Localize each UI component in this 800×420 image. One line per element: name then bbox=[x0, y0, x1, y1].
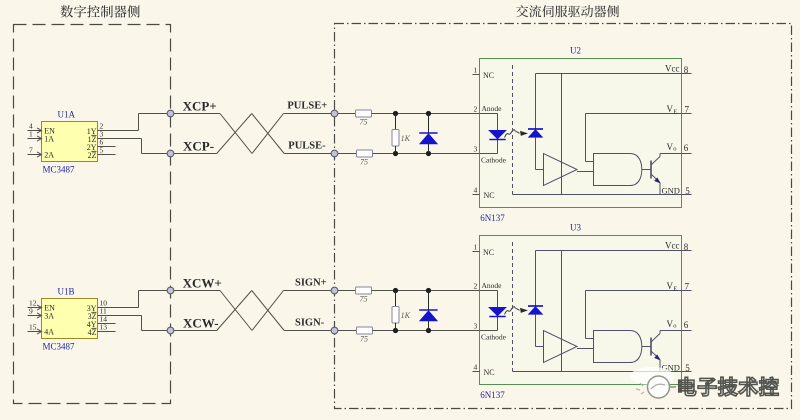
light coupling arrows bbox=[505, 307, 529, 315]
wire twisted pair to PULSE+ node bbox=[284, 113, 335, 115]
svg-text:Anode: Anode bbox=[482, 104, 503, 113]
title: digital controller side (数字控制器侧) bbox=[60, 5, 139, 17]
svg-text:3A: 3A bbox=[44, 312, 54, 321]
junction dot top of clamp diode bbox=[426, 288, 431, 293]
wire AND output to transistor base bbox=[642, 169, 651, 171]
U3 pin 7 VE enable wire bbox=[586, 281, 692, 339]
U2 pin 5 GND rail bbox=[513, 186, 692, 197]
wire resistor to opto anode pin 2 bbox=[372, 113, 480, 115]
clamp diode (reverse-parallel) bbox=[419, 291, 437, 331]
svg-text:SIGN+: SIGN+ bbox=[295, 277, 327, 288]
svg-text:75: 75 bbox=[360, 335, 368, 344]
node SIGN- port bbox=[295, 317, 338, 334]
node XCP+ port bbox=[167, 98, 217, 117]
svg-text:2Z: 2Z bbox=[88, 151, 97, 160]
clamp diode (reverse-parallel) bbox=[419, 114, 437, 154]
svg-text:MC3487: MC3487 bbox=[43, 341, 76, 351]
wire XCP+ bus jog to node bbox=[139, 113, 171, 115]
svg-text:Vcc: Vcc bbox=[665, 240, 680, 250]
U1B input pin 15 (4A) bbox=[28, 322, 55, 336]
U2 pin 7 VE enable wire bbox=[586, 104, 692, 162]
svg-text:3: 3 bbox=[474, 322, 478, 331]
U1A input pin 7 (2A) bbox=[28, 145, 55, 159]
junction dot bottom of 1K bbox=[393, 328, 398, 333]
resistor 75 ohm (bottom) bbox=[357, 327, 373, 344]
wire AND output to transistor base bbox=[642, 346, 651, 348]
svg-text:Vcc: Vcc bbox=[665, 63, 680, 73]
optocoupler U3 6N137 body bbox=[480, 223, 682, 401]
svg-text:Cathode: Cathode bbox=[481, 156, 507, 165]
optocoupler U2 6N137 body bbox=[480, 46, 682, 224]
wire twisted pair to SIGN- node bbox=[284, 330, 334, 332]
svg-text:Anode: Anode bbox=[482, 281, 503, 290]
U2 emitter LED bbox=[489, 131, 505, 140]
junction dot top of 1K bbox=[393, 111, 398, 116]
junction dot bottom of 1K bbox=[393, 151, 398, 156]
junction dot bottom of clamp diode bbox=[426, 328, 431, 333]
wire twisted pair to PULSE- node bbox=[284, 153, 334, 155]
svg-text:4: 4 bbox=[474, 186, 478, 195]
resistor 75 ohm (top) bbox=[356, 287, 372, 304]
wire SIGN+ node to series resistor bbox=[338, 290, 356, 292]
svg-text:GND: GND bbox=[662, 186, 680, 196]
svg-text:75: 75 bbox=[360, 118, 368, 127]
U2 pin 2 Anode bbox=[474, 104, 503, 114]
junction dot bottom of clamp diode bbox=[426, 151, 431, 156]
U1B input pin 12 (EN) bbox=[28, 298, 56, 312]
U3 pin 6 Vo bbox=[660, 319, 692, 330]
svg-text:5: 5 bbox=[685, 363, 690, 373]
U1A output pin 6 (2Y) bbox=[87, 137, 116, 152]
U2 pin 1 NC bbox=[473, 66, 495, 80]
svg-text:1: 1 bbox=[474, 243, 478, 252]
wire buffer output to AND gate bbox=[577, 348, 593, 350]
svg-text:XCW-: XCW- bbox=[183, 315, 219, 330]
light coupling arrows bbox=[505, 130, 529, 138]
wire buffer output to AND gate bbox=[577, 171, 593, 173]
node XCW- port bbox=[167, 315, 219, 334]
wire XCP- to twisted pair bbox=[174, 153, 217, 155]
U2 pin 6 Vo bbox=[660, 142, 692, 153]
wire XCW+ bus jog to node bbox=[139, 290, 171, 292]
U1B output pin 11 (3Z) bbox=[88, 306, 142, 330]
U3 pin 4 NC bbox=[473, 363, 495, 377]
wire resistor to opto anode pin 2 bbox=[372, 290, 480, 292]
resistor 1K shunt bbox=[392, 114, 411, 154]
dash-dot region box: AC servo driver side bbox=[335, 24, 792, 409]
U2 AND gate bbox=[594, 154, 642, 186]
svg-text:2A: 2A bbox=[44, 151, 54, 160]
svg-text:U3: U3 bbox=[570, 223, 581, 233]
svg-text:E: E bbox=[673, 108, 677, 115]
U2 isolation dashed line bbox=[512, 65, 514, 195]
U1B output pin 10 (3Y) bbox=[87, 291, 139, 313]
svg-text:XCP+: XCP+ bbox=[183, 98, 217, 113]
svg-text:XCP-: XCP- bbox=[183, 138, 214, 153]
wire XCP+ to twisted pair bbox=[174, 113, 220, 115]
svg-text:NC: NC bbox=[484, 191, 495, 200]
U1A output pin 5 (2Z) bbox=[88, 145, 116, 160]
node PULSE+ port bbox=[287, 100, 338, 117]
watermark text 电子技术控 bbox=[679, 377, 779, 396]
svg-text:4Z: 4Z bbox=[88, 328, 97, 337]
U3 output transistor bbox=[651, 331, 661, 372]
svg-text:U2: U2 bbox=[570, 46, 581, 56]
svg-text:1: 1 bbox=[474, 66, 478, 75]
node PULSE- port bbox=[288, 140, 338, 157]
svg-text:9: 9 bbox=[29, 306, 33, 315]
svg-text:13: 13 bbox=[100, 322, 108, 331]
svg-text:5: 5 bbox=[100, 145, 104, 154]
wire PULSE+ node to series resistor bbox=[338, 113, 356, 115]
U3 input LED loop wire bbox=[480, 291, 498, 331]
svg-text:4A: 4A bbox=[44, 328, 54, 337]
svg-text:2: 2 bbox=[474, 282, 478, 291]
driver IC U1B MC3487 body bbox=[42, 287, 98, 352]
wire XCW- to twisted pair bbox=[174, 330, 217, 332]
junction dot top of 1K bbox=[393, 288, 398, 293]
svg-text:NC: NC bbox=[483, 71, 494, 80]
svg-text:o: o bbox=[673, 146, 676, 153]
U2 amplifier bias line bbox=[561, 74, 563, 195]
svg-text:1A: 1A bbox=[44, 135, 54, 144]
svg-text:7: 7 bbox=[685, 105, 690, 115]
svg-text:8: 8 bbox=[684, 65, 689, 75]
wire XCP- bus jog to node bbox=[142, 153, 171, 155]
U3 pin 3 Cathode bbox=[474, 322, 507, 342]
svg-text:o: o bbox=[673, 323, 676, 330]
svg-text:U1A: U1A bbox=[58, 110, 76, 120]
U1A input pin 1 (1A) bbox=[28, 129, 55, 143]
dashed region box: digital controller side bbox=[14, 25, 171, 404]
svg-text:75: 75 bbox=[360, 295, 368, 304]
svg-text:NC: NC bbox=[483, 248, 494, 257]
U3 pin 2 Anode bbox=[474, 281, 503, 291]
U2 pin 3 Cathode bbox=[474, 145, 507, 165]
svg-text:XCW+: XCW+ bbox=[183, 275, 222, 290]
svg-text:E: E bbox=[673, 285, 677, 292]
twisted-pair crossover symbol bbox=[217, 114, 285, 154]
wire resistor to opto cathode pin 3 bbox=[373, 330, 480, 332]
svg-text:1K: 1K bbox=[401, 134, 411, 143]
U1B output pin 13 (4Z) bbox=[88, 322, 116, 337]
wire PULSE- node to series resistor bbox=[338, 153, 357, 155]
U2 output transistor bbox=[651, 154, 661, 195]
svg-text:75: 75 bbox=[360, 158, 368, 167]
node XCP- port bbox=[167, 138, 214, 157]
wire resistor to opto cathode pin 3 bbox=[373, 153, 480, 155]
node SIGN+ port bbox=[295, 277, 338, 294]
U2 pin 8 Vcc rail bbox=[536, 63, 692, 75]
U3 pin 8 Vcc rail bbox=[536, 240, 692, 252]
svg-text:6N137: 6N137 bbox=[480, 390, 505, 400]
resistor 75 ohm (bottom) bbox=[357, 150, 373, 167]
U3 AND gate bbox=[594, 331, 642, 363]
U1B output pin 14 (4Y) bbox=[87, 314, 116, 329]
U1A output pin 2 (1Y) bbox=[87, 114, 139, 136]
svg-text:NC: NC bbox=[484, 368, 495, 377]
svg-text:MC3487: MC3487 bbox=[43, 164, 76, 174]
resistor 75 ohm (top) bbox=[356, 110, 372, 127]
svg-text:U1B: U1B bbox=[58, 287, 75, 297]
svg-text:PULSE+: PULSE+ bbox=[287, 100, 327, 111]
watermark logo circle bbox=[636, 376, 676, 398]
svg-text:3: 3 bbox=[474, 145, 478, 154]
junction dot top of clamp diode bbox=[426, 111, 431, 116]
node XCW+ port bbox=[167, 275, 222, 294]
svg-text:Cathode: Cathode bbox=[481, 333, 507, 342]
wire XCW+ to twisted pair bbox=[174, 290, 220, 292]
svg-text:PULSE-: PULSE- bbox=[288, 140, 326, 151]
U2 pin 4 NC bbox=[473, 186, 495, 200]
U3 amplifier bias line bbox=[561, 251, 563, 372]
U2 amplifier buffer bbox=[544, 154, 578, 186]
resistor 1K shunt bbox=[392, 291, 411, 331]
U2 photodiode branch bbox=[528, 74, 544, 170]
title: AC servo driver side (交流伺服驱动器侧) bbox=[516, 5, 619, 17]
wire XCW- bus jog to node bbox=[142, 330, 171, 332]
U3 pin 5 GND rail bbox=[513, 363, 692, 374]
U3 emitter LED bbox=[489, 308, 505, 317]
driver IC U1A MC3487 body bbox=[42, 110, 98, 175]
svg-text:5: 5 bbox=[685, 186, 690, 196]
U3 amplifier buffer bbox=[544, 331, 578, 363]
svg-text:1: 1 bbox=[29, 129, 33, 138]
svg-text:15: 15 bbox=[29, 322, 37, 331]
U3 pin 1 NC bbox=[473, 243, 495, 257]
U2 input LED loop wire bbox=[480, 114, 498, 154]
U3 isolation dashed line bbox=[512, 242, 514, 372]
svg-text:6: 6 bbox=[684, 143, 689, 153]
svg-text:6N137: 6N137 bbox=[480, 213, 505, 223]
svg-text:6: 6 bbox=[684, 320, 689, 330]
svg-text:8: 8 bbox=[684, 242, 689, 252]
U1B input pin 9 (3A) bbox=[28, 306, 55, 320]
svg-text:4: 4 bbox=[474, 363, 478, 372]
wire twisted pair to SIGN+ node bbox=[284, 290, 335, 292]
watermark haze bbox=[630, 367, 674, 385]
svg-text:SIGN-: SIGN- bbox=[295, 317, 325, 328]
U1A output pin 3 (1Z) bbox=[88, 129, 142, 153]
svg-text:7: 7 bbox=[685, 282, 690, 292]
twisted-pair crossover symbol bbox=[217, 291, 285, 331]
svg-text:2: 2 bbox=[474, 105, 478, 114]
wire SIGN- node to series resistor bbox=[338, 330, 357, 332]
svg-text:1K: 1K bbox=[401, 311, 411, 320]
svg-text:7: 7 bbox=[29, 145, 33, 154]
U3 photodiode branch bbox=[528, 251, 544, 347]
U1A input pin 4 (EN) bbox=[28, 121, 56, 135]
